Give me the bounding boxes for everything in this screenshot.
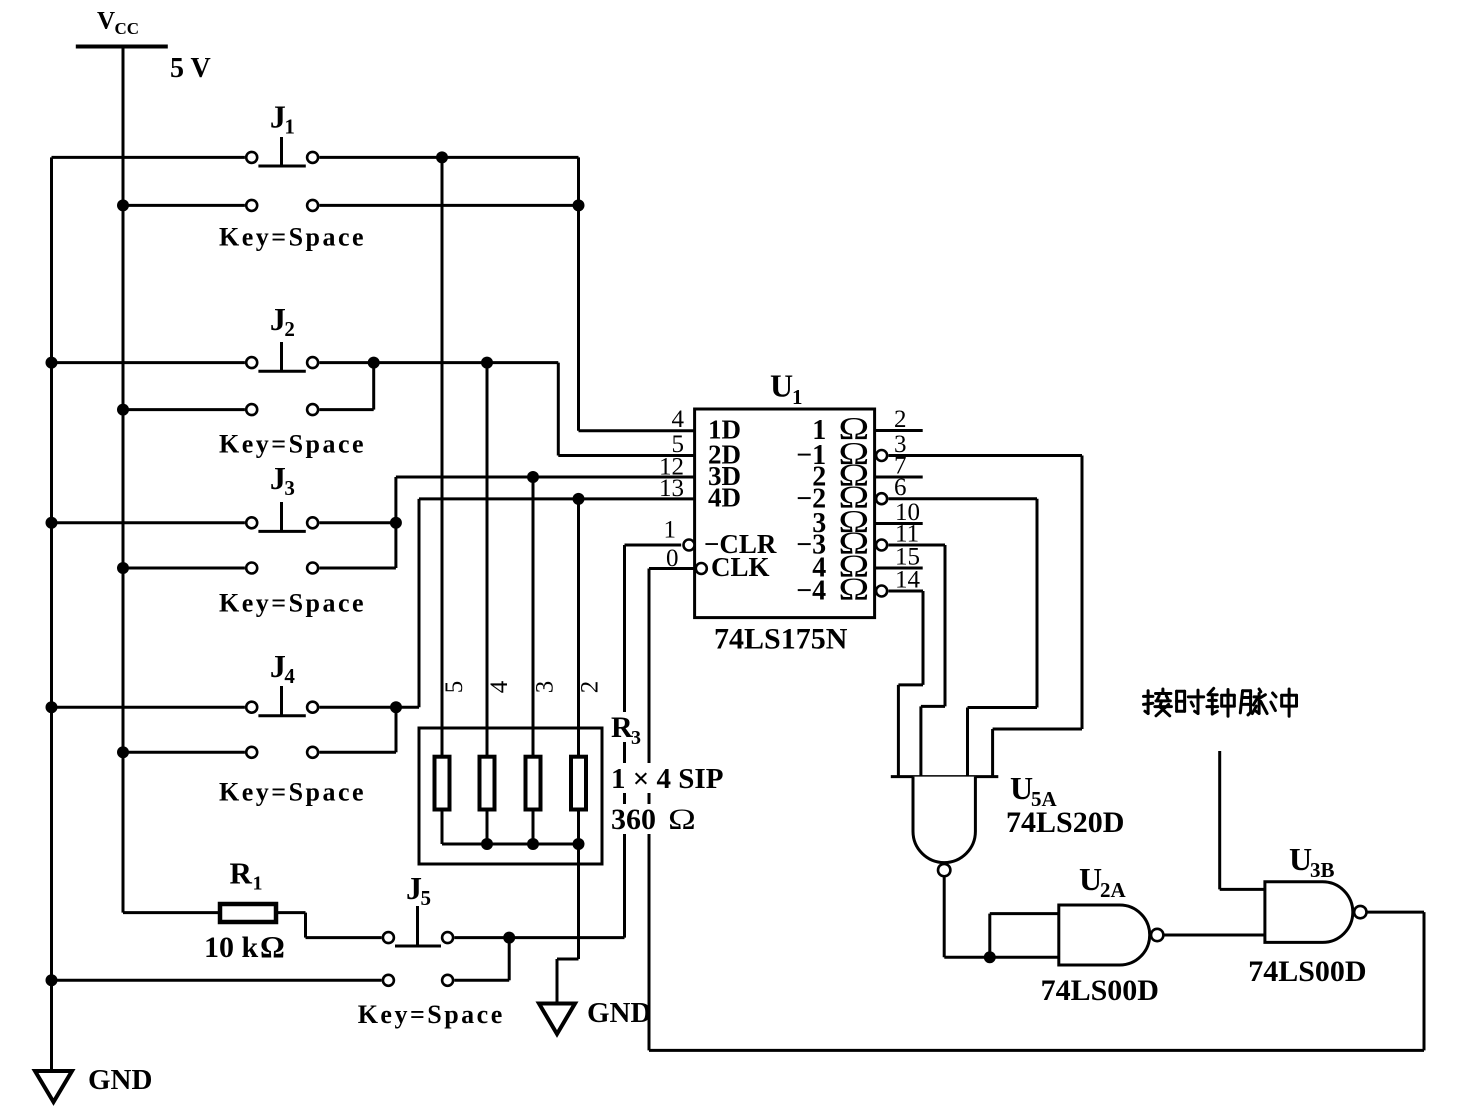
svg-text:3B: 3B	[1310, 858, 1335, 882]
svg-text:Key=Space: Key=Space	[219, 222, 366, 251]
svg-text:4: 4	[284, 664, 295, 688]
svg-text:4D: 4D	[708, 483, 741, 513]
svg-text:Key=Space: Key=Space	[358, 1000, 505, 1029]
svg-text:GND: GND	[88, 1064, 152, 1096]
svg-text:74LS00D: 74LS00D	[1248, 955, 1366, 988]
svg-text:Ω: Ω	[668, 803, 696, 836]
svg-text:4: 4	[672, 406, 685, 433]
svg-text:V: V	[97, 8, 115, 35]
svg-text:0: 0	[666, 545, 679, 572]
svg-text:3: 3	[284, 476, 295, 500]
svg-text:74LS175N: 74LS175N	[714, 623, 848, 656]
svg-text:4: 4	[486, 680, 513, 693]
svg-text:GND: GND	[587, 997, 651, 1029]
svg-text:3: 3	[631, 727, 641, 749]
svg-text:U: U	[1010, 770, 1033, 806]
svg-text:74LS20D: 74LS20D	[1006, 806, 1124, 839]
svg-text:CC: CC	[115, 19, 140, 38]
svg-text:1: 1	[284, 114, 295, 138]
svg-text:Key=Space: Key=Space	[219, 778, 366, 807]
svg-text:2A: 2A	[1100, 878, 1127, 902]
svg-text:Key=Space: Key=Space	[219, 589, 366, 618]
svg-text:2: 2	[894, 406, 907, 433]
svg-text:1 × 4 SIP: 1 × 4 SIP	[611, 763, 723, 795]
svg-text:−4: −4	[796, 576, 826, 607]
svg-text:1: 1	[792, 385, 803, 409]
svg-text:2: 2	[577, 681, 604, 694]
svg-text:14: 14	[895, 567, 921, 594]
svg-text:2: 2	[284, 317, 295, 341]
svg-text:U: U	[1289, 841, 1312, 877]
svg-text:R: R	[230, 856, 253, 891]
svg-text:5: 5	[421, 886, 432, 910]
svg-text:13: 13	[659, 475, 684, 502]
svg-text:Key=Space: Key=Space	[219, 429, 366, 458]
svg-text:3: 3	[532, 681, 559, 694]
svg-text:U: U	[1079, 861, 1102, 897]
svg-text:360: 360	[611, 803, 656, 836]
svg-text:1: 1	[253, 873, 263, 895]
svg-text:74LS00D: 74LS00D	[1041, 974, 1159, 1007]
svg-text:6: 6	[894, 474, 907, 501]
svg-text:U: U	[770, 368, 793, 404]
svg-text:Ω: Ω	[260, 929, 285, 964]
svg-text:10 k: 10 k	[204, 931, 259, 964]
svg-text:R: R	[611, 711, 633, 744]
svg-text:5 V: 5 V	[170, 53, 211, 84]
svg-text:CLK: CLK	[711, 552, 770, 582]
svg-text:5: 5	[441, 681, 468, 694]
svg-text:1: 1	[664, 517, 677, 544]
svg-text:Ω: Ω	[838, 572, 869, 607]
